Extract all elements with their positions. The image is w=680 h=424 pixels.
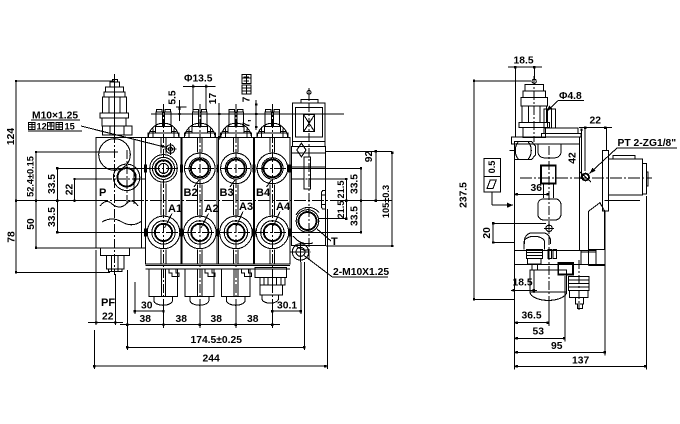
svg-text:33.5: 33.5 [47,174,58,194]
cylinder nub [647,172,649,186]
bottom strip lines under sections [146,265,291,267]
upper plate 2 [542,134,582,137]
bold square port bottom [558,263,573,274]
section 1 bolt hole circle [166,145,175,154]
right bolt stack washers [569,277,590,291]
relief valve upper step [106,87,124,92]
dim 124/78 line [15,81,17,272]
lever bracket top tab [301,99,318,103]
body main block [514,144,579,251]
svg-text:B2: B2 [184,187,198,199]
svg-text:0.5: 0.5 [487,161,497,174]
bottom big cup [530,270,567,301]
blade lower lines [589,265,605,267]
section divider 2-3 [216,137,218,264]
svg-text:105±0.3: 105±0.3 [381,185,391,218]
side tower lower [523,128,546,138]
svg-text:124: 124 [6,128,17,145]
relief valve body circle [99,139,131,171]
svg-text:A3: A3 [239,201,253,213]
relief valve flange [100,113,129,118]
section divider 3-4 [253,137,255,264]
flatness frame 0.5 [484,159,500,192]
cylinder bottom connect line [605,200,640,202]
thread note depth glyphs [28,121,82,131]
dim 22 line left [74,179,76,201]
P port axis line [75,178,101,180]
svg-text:38: 38 [247,314,259,325]
svg-text:237.5: 237.5 [459,182,470,208]
T port circle [296,210,319,233]
outlet tie rod slot [304,157,311,189]
B2 port [185,153,216,184]
relief valve lower body [102,118,126,126]
lever bracket axis [308,88,310,260]
svg-text:Φ13.5: Φ13.5 [184,74,213,85]
horizontal centerline main axis [16,200,96,202]
svg-text:30.1: 30.1 [277,301,297,312]
svg-text:42: 42 [568,152,579,164]
cap 4 plate [255,268,286,278]
relief valve hex body [103,97,127,113]
svg-text:33.5: 33.5 [350,206,361,226]
body bottom line [514,249,588,251]
svg-text:A4: A4 [276,201,291,213]
A1 port [147,216,180,249]
svg-text:53: 53 [533,327,545,338]
PT port circle [582,174,589,181]
lever bracket outer square [293,103,326,141]
bottom cap rod [532,264,538,270]
P port outer circle [113,164,139,190]
cap 3 detent tab [241,269,251,277]
dim phi13.5 line [183,86,215,88]
svg-text:PF: PF [101,297,115,309]
PF stub body [106,255,124,269]
dim 21.5 pair right [345,179,347,219]
svg-text:137: 137 [572,356,589,367]
inlet section body [96,137,145,247]
side tower cap [525,85,544,92]
lower rounded recess [525,233,551,244]
outlet rod axis line [291,178,346,180]
dim 52.4/50 line [35,152,37,248]
section 4 bonnet dome [257,110,288,138]
lever bracket stem [308,94,310,99]
svg-text:21.5: 21.5 [336,201,346,219]
rounded port recess [538,199,561,220]
outlet top block [291,147,325,167]
svg-text:7,: 7, [242,119,253,128]
bold port rect [541,165,556,183]
A2 port [184,216,217,249]
P port bold ring [117,168,135,186]
leader to bolt hole [81,126,167,148]
spool bore lines section 3 [234,137,239,264]
PF stub tip [109,269,122,272]
lever bracket inner square [296,107,323,137]
svg-text:T: T [331,236,338,248]
A3 port [220,216,253,249]
relief valve base hex nut [103,126,133,135]
svg-text:7: 7 [242,96,253,102]
foot plate bottom line [514,263,604,265]
P port vertical centerline [126,150,128,205]
relief valve acorn cap [110,82,119,87]
svg-text:78: 78 [7,231,18,243]
relief valve tower centerline [114,74,116,140]
relief valve step 2 [104,92,125,97]
side tower step [523,91,546,97]
spool bore lines section 4 [270,137,275,264]
cap 2 [185,269,214,297]
left face line extension [513,250,515,299]
cap 2 detent tab [205,269,215,277]
cylinder main [608,159,642,195]
cap 4 lower block [260,285,283,295]
svg-text:22: 22 [590,116,602,127]
ext verticals for 38 chain [126,270,128,350]
small studs pair [548,249,551,258]
svg-text:36: 36 [531,183,543,194]
svg-text:95: 95 [551,341,563,352]
svg-text:A1: A1 [168,203,182,215]
svg-text:12: 12 [37,121,47,131]
cylinder right cap [643,164,647,194]
outlet side lug [321,191,325,209]
bottom cap plate [527,258,541,264]
ext line PF bottom [16,271,110,273]
side tower flange [519,122,549,127]
hex test fitting [514,142,535,160]
section 1 bonnet dome [148,110,179,138]
ext lines right [326,150,392,152]
upper plate 1 [544,128,578,134]
svg-text:92: 92 [364,151,375,163]
svg-text:174.5±0.25: 174.5±0.25 [191,335,243,346]
side tower body [522,106,546,122]
ext line tower top [16,80,115,82]
right bolt small [575,297,583,304]
bottom cap bell [524,236,545,249]
main vertical axis side view [548,146,550,305]
bottom cap washers [526,249,542,258]
outlet bolt circle [292,244,308,260]
svg-text:22: 22 [65,184,76,196]
right bolt hex [570,290,588,297]
B3 port [221,153,252,184]
relief block side view [538,144,561,158]
right foot plate [581,250,596,264]
svg-text:22: 22 [102,312,114,323]
svg-text:5.5: 5.5 [168,90,179,105]
cap spool rods [161,269,238,296]
svg-text:36.5: 36.5 [522,311,542,322]
outlet section body [291,153,325,246]
lever clamp bowtie [304,115,315,132]
bracket base plate [293,141,326,146]
cap 1 [149,269,178,297]
svg-text:30: 30 [141,301,153,312]
stroke dim line [255,100,257,130]
stroke note 7,7 xingcheng [242,75,253,128]
casting boundary curves in inlet block [100,201,138,207]
bracket slab [602,150,608,211]
svg-text:20: 20 [482,227,493,239]
drain diamond [297,143,306,157]
svg-text:38: 38 [211,314,223,325]
svg-text:244: 244 [203,354,220,365]
side tower wide step [521,97,547,106]
svg-text:33.5: 33.5 [47,207,58,227]
section 3 bonnet dome [221,110,252,138]
inlet flange line [141,137,143,247]
horizontal centerline B row [57,167,148,169]
svg-text:A2: A2 [205,203,219,215]
svg-text:52.4±0.15: 52.4±0.15 [26,156,36,197]
B4 port [257,153,288,184]
svg-text:17: 17 [208,93,219,105]
dim 38 chain [120,324,280,326]
small hole cross [546,225,552,231]
inlet relief axis vertical centerline [114,74,116,275]
ext line bottom inlet [36,247,110,249]
main top plate [512,137,580,144]
lever bracket stem circle [307,91,311,95]
stroke reference line across studs [151,113,344,115]
cap 1 detent tab [169,269,179,277]
working sections body outline [146,137,291,264]
svg-text:18.5: 18.5 [514,56,534,67]
step block right of tower [544,109,556,128]
svg-text:21.5: 21.5 [336,181,346,199]
lever blade [589,203,605,250]
right bolt tip [578,304,583,309]
svg-text:PT 2-ZG1/8": PT 2-ZG1/8" [618,138,677,149]
svg-text:38: 38 [176,314,188,325]
section 2 bonnet dome [184,110,215,138]
dim 105 [391,153,393,246]
dim 33.5 pair right [360,168,362,232]
dim 92 [375,151,377,200]
svg-text:B3: B3 [220,187,234,199]
svg-text:15: 15 [65,121,75,131]
outlet casting arcs [293,236,313,244]
cylinder top plate [613,156,635,159]
section centerlines vertical [163,104,165,307]
svg-text:P: P [99,187,106,199]
right stack axis [578,260,580,310]
divider seal marks B row [144,165,291,173]
svg-text:38: 38 [140,314,152,325]
svg-text:33.5: 33.5 [350,174,361,194]
ext line 52.4 top [36,151,118,153]
svg-text:B4: B4 [256,187,271,199]
svg-text:50: 50 [26,218,37,230]
cap 4 ribbed band [260,278,285,286]
side tower axis [533,76,535,142]
svg-text:18.5: 18.5 [513,278,533,289]
B1 plug concentric circles [150,155,178,183]
A4 port [256,216,289,249]
dim 33.5x2 line left [56,168,58,232]
cap 3 [221,269,250,297]
spool bore lines section 2 [198,137,203,264]
divider seal marks A row [144,229,291,237]
side tower tip nub [532,79,536,83]
PF stub flange [101,248,130,256]
horizontal centerline A row [57,231,148,233]
section divider 1-2 [180,137,182,264]
horizontal axis PT level [520,177,652,179]
inlet casting edge [133,139,135,204]
spool bore lines section 1 [161,137,166,264]
